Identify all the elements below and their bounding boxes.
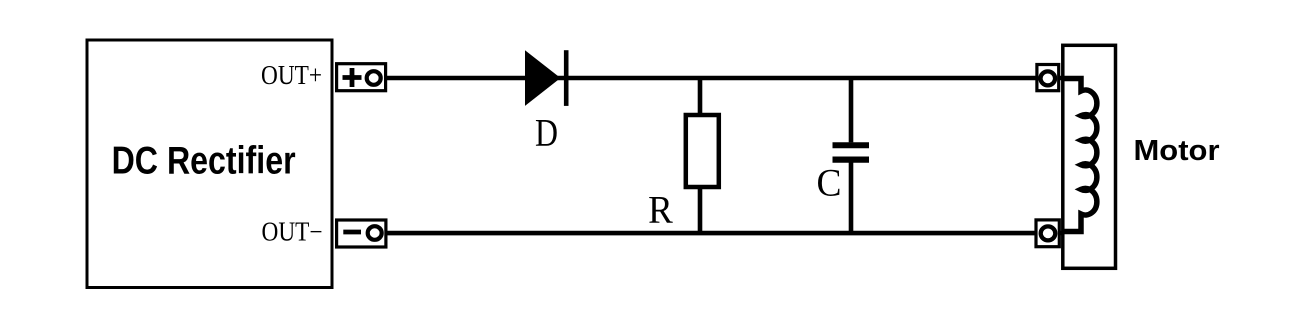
svg-text:Motor: Motor: [1134, 135, 1220, 167]
svg-text:D: D: [535, 111, 558, 155]
svg-text:DC Rectifier: DC Rectifier: [112, 140, 296, 183]
svg-text:C: C: [817, 161, 842, 205]
svg-text:R: R: [648, 188, 673, 232]
svg-text:OUT+: OUT+: [261, 60, 322, 90]
svg-text:OUT−: OUT−: [262, 217, 323, 247]
